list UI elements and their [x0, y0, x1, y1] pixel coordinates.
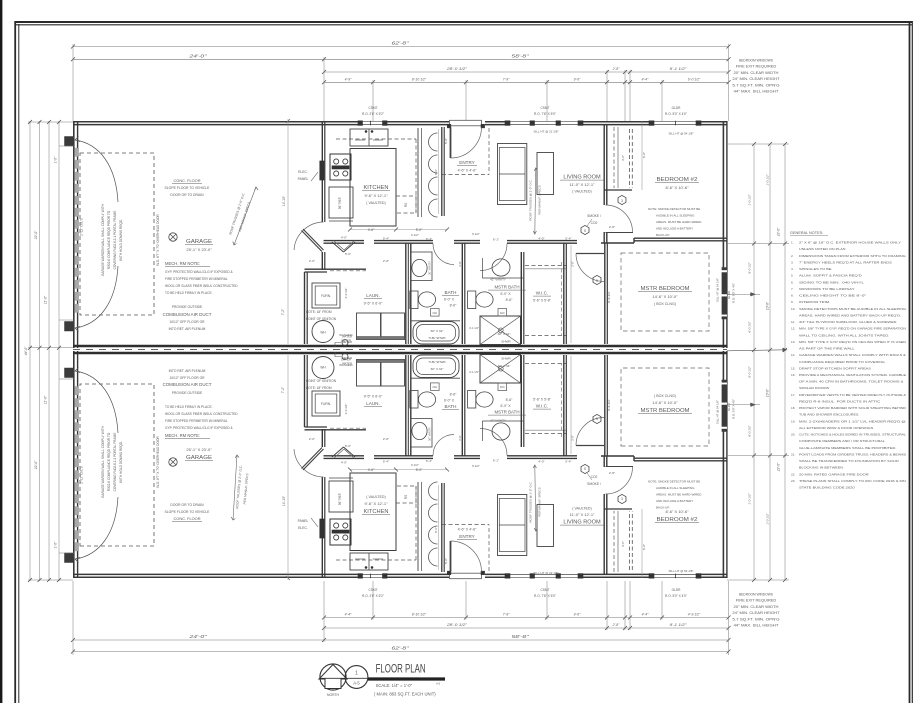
svg-text:48" X 34": 48" X 34": [498, 364, 511, 368]
svg-text:NOTE: 18" FROM: NOTE: 18" FROM: [306, 386, 332, 390]
svg-text:5'-4": 5'-4": [565, 237, 571, 241]
svg-text:6'-1": 6'-1": [493, 459, 499, 463]
svg-text:MSTR BATH: MSTR BATH: [494, 285, 519, 290]
svg-text:24'-0": 24'-0": [188, 634, 207, 639]
svg-text:11'-0": 11'-0": [44, 395, 48, 404]
svg-text:6.: 6.: [791, 280, 794, 284]
svg-text:11'-0": 11'-0": [44, 295, 48, 304]
svg-text:7" ENERGY HEELS REQ'D AT ALL R: 7" ENERGY HEELS REQ'D AT ALL RAFTER ENDS: [799, 260, 892, 264]
svg-text:SHWR: SHWR: [501, 357, 511, 361]
svg-text:R.O. 5'0" X 4'0": R.O. 5'0" X 4'0": [665, 594, 687, 598]
svg-text:4'-4": 4'-4": [642, 77, 650, 81]
svg-text:ELEC.: ELEC.: [298, 526, 308, 530]
svg-text:56" REF.: 56" REF.: [338, 493, 342, 506]
svg-text:SILL HT @ 54 1/8": SILL HT @ 54 1/8": [669, 569, 694, 573]
svg-text:AREAS. MUST BE HARD-WIRED: AREAS. MUST BE HARD-WIRED: [656, 493, 702, 497]
svg-text:10'-8": 10'-8": [766, 388, 770, 397]
svg-text:1'-0 1/2": 1'-0 1/2": [766, 512, 770, 524]
svg-text:R.O. 7'6" X 5'0": R.O. 7'6" X 5'0": [534, 594, 556, 598]
svg-text:BACK-UP.: BACK-UP.: [656, 506, 670, 510]
svg-text:RS: RS: [404, 495, 408, 499]
svg-text:60" X 32": 60" X 32": [431, 329, 444, 333]
svg-text:14'-10": 14'-10": [282, 195, 286, 206]
svg-text:GLDR: GLDR: [672, 588, 682, 592]
svg-text:R.O. 2'6" X 5'2": R.O. 2'6" X 5'2": [362, 594, 384, 598]
svg-text:14.: 14.: [791, 353, 795, 357]
svg-text:5.: 5.: [791, 274, 794, 278]
svg-text:9'-5" X 6'-0": 9'-5" X 6'-0": [364, 302, 383, 306]
svg-text:MSTR BATH: MSTR BATH: [494, 410, 519, 415]
right dim chain: [753, 144, 755, 580]
svg-text:POINT OF IGNITION: POINT OF IGNITION: [306, 379, 337, 383]
svg-text:WH: WH: [320, 331, 326, 335]
svg-text:PER MANUF. SPECS: PER MANUF. SPECS: [538, 487, 542, 516]
svg-text:6'-6": 6'-6": [642, 152, 646, 158]
svg-text:REQ'D R-8 INSUL. FOR DUCTS IN: REQ'D R-8 INSUL. FOR DUCTS IN ATTIC: [799, 399, 881, 403]
svg-text:TO BE HELD FIRMLY IN PLACE.: TO BE HELD FIRMLY IN PLACE.: [165, 405, 213, 409]
svg-text:2'-12" LVL'S: 2'-12" LVL'S: [80, 465, 84, 484]
svg-text:ALUM. SOFFIT & FASCIA REQ'D: ALUM. SOFFIT & FASCIA REQ'D: [799, 274, 863, 278]
svg-text:14'-6" X 10'-0": 14'-6" X 10'-0": [652, 294, 678, 299]
svg-text:COMPLIANCE REQUIRED PRIOR TO C: COMPLIANCE REQUIRED PRIOR TO COVERING: [799, 360, 886, 364]
svg-text:4.: 4.: [791, 267, 794, 271]
svg-text:20" MIN. CLEAR WIDTH: 20" MIN. CLEAR WIDTH: [734, 605, 780, 609]
svg-text:FAN: FAN: [500, 312, 505, 315]
svg-text:1'-0 1/2": 1'-0 1/2": [748, 193, 752, 205]
top dim row individual: [324, 81, 729, 83]
svg-text:UNLESS NOTED ON PLAN: UNLESS NOTED ON PLAN: [799, 247, 845, 251]
svg-text:10/12" OFF FLOOR OR: 10/12" OFF FLOOR OR: [169, 320, 205, 324]
svg-text:20.: 20.: [791, 433, 795, 437]
svg-text:9'-6" X 12'-1": 9'-6" X 12'-1": [364, 501, 388, 506]
svg-text:2'-12" LVL'S: 2'-12" LVL'S: [80, 217, 84, 236]
svg-text:4'-4": 4'-4": [642, 613, 650, 617]
svg-text:FURN.: FURN.: [321, 294, 331, 298]
svg-text:GYP. PROTECTED WALL/CLG IF EXP: GYP. PROTECTED WALL/CLG IF EXPOSED &: [165, 426, 234, 430]
svg-text:5.7 SQ.FT. MIN. OPN'G: 5.7 SQ.FT. MIN. OPN'G: [732, 83, 780, 87]
svg-text:METER: METER: [342, 340, 352, 344]
svg-text:6'-0" X: 6'-0" X: [501, 404, 512, 408]
svg-text:8'-10 1/2": 8'-10 1/2": [412, 613, 427, 617]
svg-text:W.D. 8'7" X 7'0" OVERHEAD DOOR: W.D. 8'7" X 7'0" OVERHEAD DOOR: [156, 214, 160, 266]
svg-text:9.: 9.: [791, 300, 794, 304]
svg-text:A-5: A-5: [353, 681, 360, 686]
svg-text:7'-9": 7'-9": [503, 77, 511, 81]
bottom dim row individual: [324, 617, 729, 619]
svg-text:9'-1 1/2": 9'-1 1/2": [670, 67, 688, 71]
top dim row 24 and 58-8: [73, 58, 729, 60]
svg-text:2'-8": 2'-8": [458, 261, 462, 266]
svg-text:6'-0 1/2": 6'-0 1/2": [748, 365, 752, 377]
svg-text:MSTR BEDROOM: MSTR BEDROOM: [641, 286, 690, 292]
svg-text:21.: 21.: [791, 452, 795, 456]
roof truss arrow garage top unit: [234, 187, 256, 245]
sheet border top: [15, 21, 913, 23]
svg-text:WINDOWS TO BE LINDSAY: WINDOWS TO BE LINDSAY: [799, 287, 855, 291]
svg-text:FIRE STOPPED PERIMETER W/ MIN: FIRE STOPPED PERIMETER W/ MINERAL: [165, 277, 228, 281]
svg-text:8.: 8.: [791, 294, 794, 298]
svg-text:6 1/2": 6 1/2": [472, 232, 480, 236]
svg-text:DIMENSIONS TAKEN FROM EXTERIOR: DIMENSIONS TAKEN FROM EXTERIOR SHTG TO F…: [799, 254, 906, 258]
svg-text:6'-6": 6'-6": [642, 544, 646, 550]
svg-text:COVERING R402.6.2.1 PORTAL FR: COVERING R402.6.2.1 PORTAL FRAME: [113, 211, 117, 270]
sheet border right: [909, 21, 911, 703]
svg-text:NOTE: 18" FROM: NOTE: 18" FROM: [306, 310, 332, 314]
svg-text:3/4" T&G PLYWOOD SUBFLOOR, GLU: 3/4" T&G PLYWOOD SUBFLOOR, GLUED & SCREW…: [799, 320, 897, 324]
svg-text:CUTS, NOTCHES & HOLES BORED IN: CUTS, NOTCHES & HOLES BORED IN TRUSSES, …: [799, 433, 906, 437]
svg-text:9'-6": 9'-6": [574, 613, 582, 617]
svg-text:8'-6": 8'-6": [450, 304, 458, 308]
svg-text:GLUE-LAMINATE MEMBERS SHALL BE: GLUE-LAMINATE MEMBERS SHALL BE PROHIBITE…: [799, 446, 897, 450]
title north arrow circle: [320, 664, 346, 690]
svg-text:( VAULTED): ( VAULTED): [572, 507, 591, 511]
svg-text:SILL HT @ 54 1/8": SILL HT @ 54 1/8": [716, 400, 720, 424]
sheet border left: [14, 21, 16, 703]
svg-text:8'-10 1/2": 8'-10 1/2": [412, 77, 427, 81]
svg-text:8'-6": 8'-6": [434, 169, 438, 175]
svg-text:COVERING R402.6.2.1 PORTAL FR: COVERING R402.6.2.1 PORTAL FRAME: [113, 433, 117, 492]
svg-text:1'-0 1/2": 1'-0 1/2": [748, 492, 752, 504]
svg-text:14'-6" X 10'-0": 14'-6" X 10'-0": [652, 400, 678, 405]
svg-text:14'-10": 14'-10": [282, 495, 286, 506]
svg-text:BATH: BATH: [445, 290, 457, 295]
bottom dim row 62-8: [73, 651, 729, 653]
svg-text:SMOKE DETECTORS MUST BE AUDIBL: SMOKE DETECTORS MUST BE AUDIBLE IN ALL S…: [799, 307, 907, 311]
svg-text:MSTR BEDROOM: MSTR BEDROOM: [641, 408, 690, 414]
svg-text:16.: 16.: [791, 373, 795, 377]
svg-text:62'-8": 62'-8": [392, 646, 410, 651]
svg-text:7'-2": 7'-2": [281, 308, 285, 315]
svg-text:SMOKE /: SMOKE /: [587, 214, 601, 218]
svg-text:4'-6" X 4'-6": 4'-6" X 4'-6": [458, 169, 477, 173]
svg-text:R302.6 COMPLIANCE REQD PRIOR T: R302.6 COMPLIANCE REQD PRIOR TO: [107, 210, 111, 269]
svg-text:8'-6": 8'-6": [450, 392, 458, 396]
svg-text:WITH HOLD DOWNS REQD.: WITH HOLD DOWNS REQD.: [119, 219, 123, 261]
svg-text:4'-9 1/2": 4'-9 1/2": [688, 613, 701, 617]
svg-text:RS: RS: [404, 203, 408, 207]
svg-text:CONC. FLOOR: CONC. FLOOR: [173, 516, 200, 521]
svg-text:LAUN.: LAUN.: [366, 293, 380, 298]
svg-text:BEDROOM #2: BEDROOM #2: [657, 177, 698, 183]
svg-text:BEDROOM #2: BEDROOM #2: [657, 517, 698, 523]
svg-text:AND INCLUDE A BATTERY: AND INCLUDE A BATTERY: [656, 499, 693, 503]
svg-text:6'-1": 6'-1": [493, 238, 499, 242]
svg-text:SHALL BE TRANSFERRED TO FOUNDA: SHALL BE TRANSFERRED TO FOUNDATION BY SO…: [799, 459, 900, 463]
svg-text:BATH: BATH: [445, 404, 457, 409]
svg-text:22'-0": 22'-0": [777, 462, 781, 472]
svg-text:CSMT: CSMT: [368, 106, 377, 110]
svg-text:SIDING TO BE MIN. .040 VINYL: SIDING TO BE MIN. .040 VINYL: [799, 280, 864, 284]
svg-text:2'-8": 2'-8": [612, 67, 621, 71]
svg-text:TUB/ SHWR: TUB/ SHWR: [428, 336, 446, 340]
svg-text:GARAGE: GARAGE: [186, 455, 212, 461]
svg-text:NORTH: NORTH: [327, 693, 340, 697]
svg-text:2'-0": 2'-0": [309, 259, 315, 263]
svg-text:6'-0" X: 6'-0" X: [501, 292, 512, 296]
svg-text:LIVING ROOM: LIVING ROOM: [563, 175, 601, 181]
svg-text:1'-0": 1'-0": [54, 156, 58, 163]
svg-text:R.O. 2'6" X 5'2": R.O. 2'6" X 5'2": [362, 112, 384, 116]
svg-text:2.: 2.: [791, 254, 794, 258]
svg-text:SLOPE FLOOR TO VEHICLE: SLOPE FLOOR TO VEHICLE: [165, 186, 211, 190]
svg-text:3: 3: [621, 199, 623, 203]
svg-text:10.: 10.: [791, 307, 795, 311]
svg-text:LAUN.: LAUN.: [366, 401, 380, 406]
svg-text:ALL EXTERIOR WDW & DOOR OPENIN: ALL EXTERIOR WDW & DOOR OPENINGS: [799, 426, 873, 430]
bottom dim row 28: [324, 627, 729, 629]
svg-text:28'-0 1/2": 28'-0 1/2": [446, 623, 468, 627]
svg-text:58'-8": 58'-8": [512, 634, 530, 639]
svg-text:4'-1 1/2": 4'-1 1/2": [469, 370, 479, 374]
svg-text:WITH HOLD DOWNS REQD.: WITH HOLD DOWNS REQD.: [119, 441, 123, 483]
svg-text:BLOCKING IN BETWEEN: BLOCKING IN BETWEEN: [799, 466, 843, 470]
fire wall leader to general note: [727, 350, 786, 351]
svg-text:AS PART OF THE FIRE WALL: AS PART OF THE FIRE WALL: [799, 347, 855, 351]
svg-text:24" MIN. CLEAR HEIGHT: 24" MIN. CLEAR HEIGHT: [732, 611, 779, 615]
svg-text:DRAFT STOP KITCHEN SOFFIT AREA: DRAFT STOP KITCHEN SOFFIT AREAS: [799, 366, 871, 370]
top dim extension lines: [72, 44, 74, 121]
svg-text:DOOR OR TO DRAIN: DOOR OR TO DRAIN: [170, 503, 204, 507]
svg-text:1: 1: [355, 671, 358, 677]
svg-text:8'-6" X 10'-6": 8'-6" X 10'-6": [665, 509, 689, 514]
svg-text:2'-8": 2'-8": [571, 261, 575, 266]
svg-text:ELEC.: ELEC.: [298, 170, 308, 174]
svg-text:GENERAL NOTES:: GENERAL NOTES:: [790, 231, 823, 235]
svg-text:22.: 22.: [791, 472, 795, 476]
svg-text:W.I.C.: W.I.C.: [536, 291, 549, 296]
svg-text:AREAS. MUST BE HARD-WIRED: AREAS. MUST BE HARD-WIRED: [656, 220, 702, 224]
svg-text:COMPOSITE MEMBERS AND / OR STR: COMPOSITE MEMBERS AND / OR STRUCTURAL: [799, 439, 885, 443]
svg-text:INTO RET. AIR PLENUM: INTO RET. AIR PLENUM: [169, 369, 206, 373]
svg-text:FLOOR PLAN: FLOOR PLAN: [376, 664, 426, 676]
svg-text:11'-0" X 12'-1": 11'-0" X 12'-1": [570, 512, 596, 517]
svg-text:10/12" OFF FLOOR OR: 10/12" OFF FLOOR OR: [169, 376, 205, 380]
svg-text:2'-8": 2'-8": [383, 437, 389, 441]
svg-text:4'-0": 4'-0": [621, 155, 625, 161]
right chain window ties: [728, 293, 761, 295]
svg-text:CSMT: CSMT: [540, 106, 549, 110]
svg-text:4'-0": 4'-0": [341, 461, 347, 465]
title sheet circle: [345, 666, 368, 689]
svg-text:PER MANUF. SPECS: PER MANUF. SPECS: [538, 185, 542, 214]
svg-text:3: 3: [621, 497, 623, 501]
svg-text:W.D. 8'7" X 7'0" OVERHEAD DOOR: W.D. 8'7" X 7'0" OVERHEAD DOOR: [156, 436, 160, 488]
svg-text:COMBUSION AIR DUCT: COMBUSION AIR DUCT: [163, 312, 212, 317]
svg-text:MIN. 5/8" TYPE X GYP. REQ'D ON: MIN. 5/8" TYPE X GYP. REQ'D ON CEILING W…: [799, 340, 907, 344]
svg-text:TUB/ SHWR: TUB/ SHWR: [428, 360, 446, 364]
svg-text:GARAGE WARDEN WALL SHALL COMPL: GARAGE WARDEN WALL SHALL COMPLY WITH: [101, 203, 105, 276]
svg-text:28'-0 1/2": 28'-0 1/2": [446, 67, 468, 71]
svg-text:5: 5: [596, 279, 598, 283]
svg-text:SILL HT @ 54 1/8": SILL HT @ 54 1/8": [669, 132, 694, 136]
svg-text:4'-0 3/4": 4'-0 3/4": [344, 404, 348, 415]
svg-text:5'-4": 5'-4": [383, 460, 389, 464]
svg-text:NOTE: SMOKE DETECTOR MUST BE: NOTE: SMOKE DETECTOR MUST BE: [648, 480, 700, 484]
svg-text:4'-0": 4'-0": [538, 237, 544, 241]
svg-text:POINT LOADS FROM GIRDERS TRUSS: POINT LOADS FROM GIRDERS TRUSS, HEADERS …: [799, 452, 906, 456]
svg-text:SIMILAR ROOMS: SIMILAR ROOMS: [799, 386, 829, 390]
svg-text:( BOX CLNG): ( BOX CLNG): [654, 394, 676, 398]
svg-text:PROVIDE OUTSIDE: PROVIDE OUTSIDE: [172, 305, 203, 309]
svg-text:AUDIBLE IN ALL SLEEPING: AUDIBLE IN ALL SLEEPING: [656, 214, 695, 218]
svg-text:4'-1 1/2": 4'-1 1/2": [469, 326, 479, 330]
left dim chain: [29, 121, 31, 581]
svg-text:6'-0" X: 6'-0" X: [444, 298, 455, 302]
svg-text:3.: 3.: [791, 260, 794, 264]
svg-text:4'-6": 4'-6": [368, 468, 375, 472]
svg-text:4'-0": 4'-0": [538, 460, 544, 464]
svg-text:8'-6" X 10'-6": 8'-6" X 10'-6": [665, 185, 689, 190]
svg-text:8'-6 1/4": 8'-6 1/4": [607, 399, 611, 411]
unit B geometry mirrored: [65, 350, 728, 581]
svg-text:INTO RET. AIR PLENUM: INTO RET. AIR PLENUM: [169, 327, 206, 331]
svg-text:5: 5: [596, 417, 598, 421]
bottom dim extension lines: [72, 581, 74, 655]
svg-text:OF A MIN. 40 CFM IN BATHROOMS,: OF A MIN. 40 CFM IN BATHROOMS, TOILET RO…: [799, 380, 905, 384]
svg-text:2'-0": 2'-0": [309, 437, 315, 441]
svg-text:CSMT: CSMT: [368, 588, 377, 592]
svg-text:25'-1" X 23'-0": 25'-1" X 23'-0": [186, 247, 212, 252]
svg-text:11'-0" X 12'-1": 11'-0" X 12'-1": [570, 182, 596, 187]
svg-text:CSMT: CSMT: [540, 588, 549, 592]
svg-text:( VAULTED): ( VAULTED): [366, 201, 385, 205]
svg-text:23.: 23.: [791, 479, 795, 483]
svg-text:13.: 13.: [791, 340, 795, 344]
svg-text:6'-0 1/2": 6'-0 1/2": [688, 77, 701, 81]
svg-text:TUB AND SHOWER ENCLOSURES.: TUB AND SHOWER ENCLOSURES.: [799, 413, 859, 417]
svg-text:30" VANITY: 30" VANITY: [428, 261, 432, 275]
svg-text:POINT OF IGNITION: POINT OF IGNITION: [306, 317, 337, 321]
svg-text:5'-0": 5'-0": [416, 468, 423, 472]
svg-text:22'-0": 22'-0": [34, 230, 38, 240]
svg-text:9'-6": 9'-6": [574, 77, 582, 81]
svg-text:2'-8": 2'-8": [609, 471, 615, 475]
svg-text:CEILING HEIGHT TO BE 8'-0": CEILING HEIGHT TO BE 8'-0": [799, 294, 866, 298]
svg-text:R.O. 9'0" X 4'0": R.O. 9'0" X 4'0": [732, 399, 736, 419]
svg-text:FIRE EXIT REQUIRED: FIRE EXIT REQUIRED: [736, 599, 777, 603]
svg-text:20" MIN. CLEAR WIDTH: 20" MIN. CLEAR WIDTH: [734, 71, 780, 75]
roof truss arrow garage bottom unit: [233, 455, 237, 520]
svg-text:5'-0": 5'-0": [444, 138, 448, 144]
svg-text:SHWR: SHWR: [501, 340, 511, 344]
svg-text:6 1/2": 6 1/2": [411, 463, 419, 467]
svg-text:SILL HT @ 22 1/8": SILL HT @ 22 1/8": [534, 130, 559, 134]
svg-text:2'-8": 2'-8": [609, 225, 615, 229]
svg-text:58'-8": 58'-8": [512, 53, 530, 58]
svg-text:4'-0": 4'-0": [341, 236, 347, 240]
svg-text:5'-4": 5'-4": [565, 460, 571, 464]
svg-text:AUDIBLE IN ALL SLEEPING: AUDIBLE IN ALL SLEEPING: [656, 486, 695, 490]
svg-text:SLOPE FLOOR TO VEHICLE: SLOPE FLOOR TO VEHICLE: [165, 510, 211, 514]
svg-text:6'-0" X: 6'-0" X: [444, 398, 455, 402]
svg-text:A-5: A-5: [436, 682, 441, 686]
svg-text:11.: 11.: [791, 320, 795, 324]
svg-text:24'-0": 24'-0": [188, 53, 207, 58]
svg-text:22'-0": 22'-0": [34, 460, 38, 470]
svg-text:48" X 34": 48" X 34": [498, 332, 511, 336]
svg-text:( BOX CLNG): ( BOX CLNG): [654, 302, 676, 306]
svg-text:5'-6" X 5'-8": 5'-6" X 5'-8": [533, 398, 551, 402]
svg-text:30" VANITY: 30" VANITY: [428, 427, 432, 441]
svg-text:FIRE EXIT REQUIRED: FIRE EXIT REQUIRED: [736, 65, 777, 69]
svg-text:WOOL OR GLASS FIBER INSUL CONS: WOOL OR GLASS FIBER INSUL CONSTRUCTED: [165, 412, 238, 416]
svg-text:24" MIN. CLEAR HEIGHT: 24" MIN. CLEAR HEIGHT: [732, 77, 779, 81]
svg-text:4'-4": 4'-4": [345, 613, 353, 617]
svg-text:THESE PLANS SHALL COMPLY TO IR: THESE PLANS SHALL COMPLY TO IRC CODE 201…: [799, 479, 906, 483]
svg-text:8'-6": 8'-6": [506, 298, 514, 302]
svg-text:8'-6 1/4": 8'-6 1/4": [607, 291, 611, 303]
svg-text:R.O. 5'0" X 4'0": R.O. 5'0" X 4'0": [665, 112, 687, 116]
svg-text:2'-8": 2'-8": [571, 435, 575, 440]
svg-text:PANEL: PANEL: [298, 177, 309, 181]
svg-text:5'-6" X 5'-8": 5'-6" X 5'-8": [533, 299, 551, 303]
svg-text:WOOL OR GLASS FIBER INSUL CONS: WOOL OR GLASS FIBER INSUL CONSTRUCTED: [165, 284, 238, 288]
top dim row 28 2-8 9-1: [324, 71, 729, 73]
svg-text:ENTRY: ENTRY: [459, 534, 475, 539]
svg-text:5'-0": 5'-0": [345, 252, 351, 256]
svg-text:6 1/2": 6 1/2": [411, 233, 419, 237]
svg-text:AREAS, HARD WIRED AND BATTERY: AREAS, HARD WIRED AND BATTERY BACK-UP RE…: [799, 313, 901, 317]
svg-text:5'-0": 5'-0": [345, 444, 351, 448]
svg-text:44" MAX. SILL HEIGHT: 44" MAX. SILL HEIGHT: [734, 90, 779, 94]
svg-text:AND INCLUDE A BATTERY: AND INCLUDE A BATTERY: [656, 227, 693, 231]
svg-text:WATER: WATER: [342, 335, 352, 339]
svg-text:2'-8": 2'-8": [458, 435, 462, 440]
svg-text:WH: WH: [320, 366, 326, 370]
svg-text:BACK-UP.: BACK-UP.: [656, 233, 670, 237]
svg-text:MECH. RM NOTE:: MECH. RM NOTE:: [165, 433, 200, 438]
svg-text:METER: METER: [342, 356, 352, 360]
svg-text:25'-1" X 23'-0": 25'-1" X 23'-0": [186, 447, 212, 452]
svg-text:GARAGE WARDEN WALL SHALL COMPL: GARAGE WARDEN WALL SHALL COMPLY WITH: [101, 425, 105, 498]
svg-text:W.I.C.: W.I.C.: [536, 404, 549, 409]
svg-text:R.O. 9'0" X 4'0": R.O. 9'0" X 4'0": [732, 283, 736, 303]
svg-text:8'-6": 8'-6": [434, 527, 438, 533]
svg-text:17.: 17.: [791, 393, 795, 397]
title divider line: [320, 677, 368, 679]
unit A geometry: [65, 119, 728, 350]
svg-text:ROOF TRUSSES @ 2'-0" O.C.: ROOF TRUSSES @ 2'-0" O.C.: [529, 179, 533, 220]
svg-text:20 MIN. RATED GARAGE FIRE DOOR: 20 MIN. RATED GARAGE FIRE DOOR: [799, 472, 870, 476]
svg-text:NOTE: SMOKE DETECTOR MUST BE: NOTE: SMOKE DETECTOR MUST BE: [648, 207, 700, 211]
svg-text:5'-4": 5'-4": [383, 237, 389, 241]
svg-text:10'-8": 10'-8": [766, 301, 770, 310]
svg-text:( VAULTED): ( VAULTED): [366, 495, 385, 499]
svg-text:4'-6": 4'-6": [368, 228, 375, 232]
svg-text:FIRE STOPPED PERIMETER W/ MIN: FIRE STOPPED PERIMETER W/ MINERAL: [165, 419, 228, 423]
svg-text:CO2: CO2: [591, 221, 598, 225]
svg-text:6 1/2": 6 1/2": [472, 464, 480, 468]
svg-text:4'-0": 4'-0": [621, 541, 625, 547]
svg-text:R.O. 7'6" X 5'0": R.O. 7'6" X 5'0": [534, 112, 556, 116]
svg-text:9'-5" X 6'-0": 9'-5" X 6'-0": [364, 395, 383, 399]
svg-text:BEDROOM WINDOWS: BEDROOM WINDOWS: [739, 593, 774, 597]
svg-text:DOOR OR TO DRAIN: DOOR OR TO DRAIN: [170, 193, 204, 197]
svg-text:1'-0": 1'-0": [54, 541, 58, 548]
svg-text:8'-6": 8'-6": [506, 398, 514, 402]
svg-text:7'-9": 7'-9": [503, 613, 511, 617]
svg-text:1.: 1.: [791, 241, 794, 245]
svg-text:R302.6 COMPLIANCE REQD PRIOR T: R302.6 COMPLIANCE REQD PRIOR TO: [107, 432, 111, 491]
svg-text:44'-0": 44'-0": [24, 346, 28, 355]
svg-text:2'-8": 2'-8": [612, 623, 621, 627]
svg-text:7.: 7.: [791, 287, 794, 291]
svg-text:KITCHEN: KITCHEN: [364, 185, 389, 191]
svg-text:GARAGE: GARAGE: [186, 239, 212, 245]
svg-text:2'-8": 2'-8": [383, 259, 389, 263]
svg-text:PROVIDE OUTSIDE: PROVIDE OUTSIDE: [172, 391, 203, 395]
svg-text:6'-4": 6'-4": [426, 237, 432, 241]
